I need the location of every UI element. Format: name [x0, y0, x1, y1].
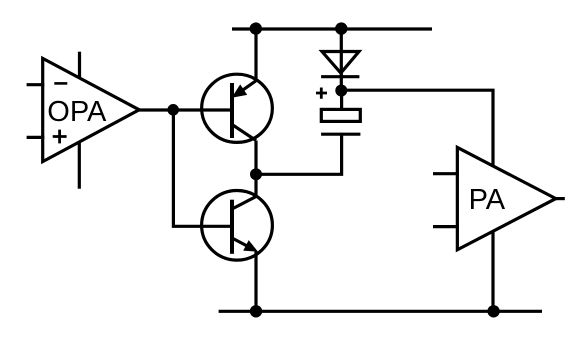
Q1 emitter (arrow into base, PNP): [238, 81, 256, 94]
Q1 base bar: [230, 83, 234, 138]
wire OPA output to Q1 base: [139, 108, 234, 111]
U1 inverting input stub: [27, 83, 45, 86]
U2 upper input stub: [433, 172, 459, 175]
wire rail to Q1 emitter: [254, 28, 257, 82]
svg-text:OPA: OPA: [47, 96, 107, 128]
U1 non-inverting input stub: [27, 136, 45, 139]
amplifier U2 triangle: [457, 147, 555, 249]
wire V+ top rail: [232, 27, 432, 30]
U1 plus input label: [53, 130, 67, 144]
wire Q2 collector to mid node: [254, 174, 257, 196]
node dot bottom rail left: [250, 305, 262, 317]
Q2 emitter (arrow out, NPN): [232, 238, 250, 248]
Q2 collector: [232, 197, 256, 210]
capacitor C1 bottom plate: [321, 133, 360, 136]
wire bottom rail: [219, 310, 542, 313]
diode D1 (cathode down): [322, 52, 359, 74]
node dot top rail above Q1: [250, 22, 262, 34]
wire node down and right to Q2 base: [173, 110, 233, 226]
U1 negative supply stub: [78, 142, 81, 189]
Q2 base bar: [230, 200, 234, 254]
op-amp U1 triangle: [43, 58, 140, 161]
node dot between Q1 and Q2: [250, 168, 262, 180]
node dot diode / C1 / PA supply: [335, 85, 347, 97]
U1 minus input label: [54, 82, 67, 85]
D1 cathode bar: [321, 75, 359, 78]
node dot top rail above D1: [335, 22, 347, 34]
wire Q1 collector to mid node: [254, 141, 257, 175]
capacitor C1 top plate (box): [321, 109, 360, 121]
plus polarity mark for C1: [316, 88, 327, 99]
node dot bottom rail right: [487, 305, 499, 317]
wire Q2 emitter to bottom rail: [254, 252, 257, 313]
node dot OPA output: [167, 104, 179, 116]
wire node to PA positive supply (right then down to triangle edge): [341, 90, 493, 167]
transistor Q2 body circle: [202, 191, 273, 261]
U2 lower input stub: [433, 225, 459, 228]
wire PA negative supply to bottom rail: [491, 230, 494, 313]
wire rail through diode D1 to node: [340, 28, 343, 91]
svg-text:PA: PA: [469, 184, 506, 216]
wire mid node right and up to C1 bottom plate: [256, 134, 342, 174]
U2 output stub: [554, 197, 565, 200]
U1 positive supply stub: [78, 52, 81, 77]
transistor Q1 body circle: [202, 74, 273, 142]
Q1 collector: [232, 125, 256, 141]
wire node to C1 top plate: [340, 91, 343, 110]
